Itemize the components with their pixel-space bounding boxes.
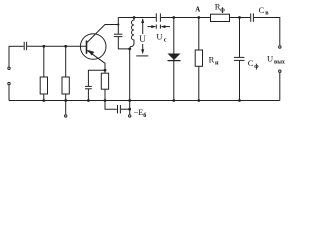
svg-text:U: U [139, 34, 146, 44]
wire: emitter resistor top lead [104, 70, 106, 73]
label: Uvyh [267, 54, 285, 66]
label: -Eb [134, 108, 147, 119]
node: supply branch junction [128, 108, 131, 111]
wire: base line from cap to transistor base [27, 45, 86, 47]
wire: output lower to ground rail [279, 73, 281, 101]
capacitor Ce (emitter bypass) [85, 86, 92, 88]
wire: tank capacitor top lead / collector riser [117, 18, 119, 35]
wire: top rail segment 4 and right drop [254, 18, 280, 46]
terminal: output lower [279, 70, 281, 72]
svg-text:U: U [267, 54, 273, 64]
svg-text:C: C [259, 5, 265, 15]
capacitor Cf (filter) [234, 57, 245, 60]
terminal: -Eb supply [129, 115, 131, 117]
node: Cf / ground rail [238, 99, 241, 102]
wire: Cf top lead [239, 18, 241, 58]
svg-text:A: A [195, 6, 200, 13]
wire: top rail segment 3 (Rf to Cv) [230, 17, 251, 19]
label: Cv [259, 5, 270, 16]
wire: top rail segment 1 [118, 17, 156, 19]
wire: -Eb vertical from tank bottom through rail to terminal [129, 49, 131, 114]
wire: tank capacitor bottom lead [118, 37, 129, 49]
capacitor Cc (series coupling to detector) [156, 13, 160, 21]
node: Re / ground rail [104, 99, 107, 102]
resistor R2 (bias divider) [62, 77, 69, 94]
wire: ground terminal stub below rail [65, 101, 67, 115]
diode VD [168, 54, 181, 61]
svg-text:вых: вых [274, 59, 285, 65]
wire: Re bottom lead [104, 89, 106, 100]
svg-text:ф: ф [220, 7, 225, 14]
svg-text:−E: −E [134, 108, 144, 117]
transistor VT emitter arrow (PNP, pointing to base) [88, 50, 94, 56]
wire: R1 bottom lead [43, 94, 45, 101]
node: diode / ground rail [172, 99, 175, 102]
resistor Re (emitter) [101, 73, 108, 89]
label: Uc [156, 32, 166, 44]
node: R1 / ground rail [42, 99, 45, 102]
capacitor Ck (tank) [114, 34, 123, 36]
node A junction [197, 16, 200, 19]
svg-text:н: н [215, 60, 219, 67]
resistor Rf (filter, horizontal) [211, 14, 230, 21]
svg-text:ф: ф [254, 63, 259, 70]
terminal: input lower [8, 82, 10, 84]
svg-text:R: R [209, 55, 215, 65]
wire: base line left of input capacitor [9, 45, 24, 47]
terminal: output upper [279, 46, 281, 48]
wire: diode vertical [173, 18, 175, 101]
node: R2 / ground rail [64, 99, 67, 102]
node: coil / top rail [133, 16, 136, 19]
transistor VT base bar [86, 41, 88, 54]
wire: Ce bottom lead [87, 89, 89, 101]
wire: R2 bottom lead [65, 94, 67, 101]
resistor R1 (bias divider) [40, 77, 47, 94]
transistor VT (PNP) body circle [80, 34, 106, 60]
capacitor Cv (output coupling) [251, 13, 254, 21]
transistor VT collector lead [87, 25, 118, 43]
node: Cf tap on top rail [238, 16, 241, 19]
wire: supply branch right of capacitor [121, 108, 130, 110]
node: Ce / ground rail [87, 99, 90, 102]
label: Rf [215, 1, 225, 13]
svg-text:с: с [164, 36, 167, 43]
wire: R1 top lead [43, 46, 45, 77]
transistor VT emitter lead [87, 50, 105, 70]
node: base line / R1 junction [42, 45, 45, 48]
svg-text:C: C [248, 58, 254, 68]
wire: Cf bottom lead [239, 60, 241, 100]
wire: Rn top lead from node A [198, 18, 200, 51]
wire: Rn bottom lead [198, 66, 200, 100]
wire: left input vertical upper [8, 46, 10, 67]
node: emitter junction [104, 69, 107, 72]
svg-text:U: U [156, 32, 162, 42]
wire: supply branch below rail from Re lead [105, 101, 117, 110]
wire: top rail segment 2 [161, 17, 211, 19]
terminal: input upper [8, 67, 10, 69]
node: tank bottom junction [128, 48, 131, 51]
capacitor Cb (supply blocking) [118, 105, 121, 113]
wire: left input vertical lower to ground rail [8, 85, 10, 100]
svg-text:в: в [265, 9, 269, 16]
node: diode tap on top rail [172, 16, 175, 19]
wire: emitter bypass branch [88, 70, 105, 86]
label: Rn [209, 55, 219, 67]
node: base line / R2 junction [64, 45, 67, 48]
node: collector / tank lead junction [117, 23, 119, 25]
inductor L (tank coil) [130, 18, 134, 49]
capacitor: input coupling cap [24, 42, 26, 50]
wire: bottom ground rail [9, 100, 280, 102]
node: -Eb wire / ground rail [128, 99, 131, 102]
label: Cf [248, 58, 260, 70]
dimension arrows: Uc across series capacitor [148, 25, 171, 29]
wire: R2 top lead [65, 46, 67, 77]
node: Rn / ground rail [197, 99, 200, 102]
resistor Rn (load) [195, 50, 202, 66]
svg-text:б: б [143, 112, 146, 119]
terminal: common ground [65, 115, 67, 117]
dimension arrow: tank voltage U (vertical) [136, 18, 148, 56]
